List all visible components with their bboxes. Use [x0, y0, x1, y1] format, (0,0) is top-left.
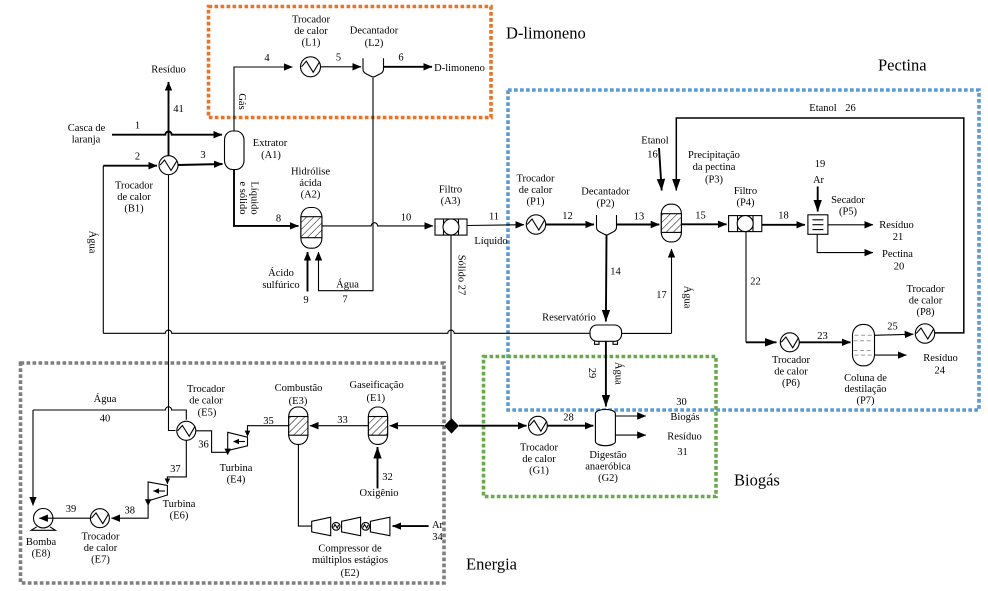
svg-text:25: 25 — [887, 322, 898, 333]
stream 16 Etanol — [641, 136, 668, 191]
dryer P5 — [808, 195, 866, 234]
svg-text:(P4): (P4) — [736, 198, 755, 209]
svg-text:(L2): (L2) — [365, 38, 384, 49]
stream 5 — [321, 53, 362, 67]
reactor A2 Hidrolise acida — [291, 167, 330, 249]
svg-text:Resíduo: Resíduo — [151, 65, 185, 76]
wire G1 to G2 — [547, 425, 593, 427]
svg-text:31: 31 — [677, 447, 688, 458]
svg-text:8: 8 — [276, 214, 281, 225]
svg-text:Ácido: Ácido — [268, 267, 294, 279]
svg-text:36: 36 — [198, 440, 209, 451]
svg-text:(P8): (P8) — [916, 307, 935, 318]
decanter P2 — [581, 187, 630, 235]
svg-text:Gaseificação: Gaseificação — [349, 380, 403, 391]
svg-text:5: 5 — [336, 53, 341, 64]
svg-text:Água: Água — [94, 393, 117, 405]
svg-text:4: 4 — [264, 53, 270, 64]
heat exchanger E5 — [177, 384, 226, 440]
stream 38 — [111, 499, 151, 518]
svg-text:Gás: Gás — [236, 93, 247, 109]
compressor E2 — [298, 444, 390, 579]
svg-text:Decantador: Decantador — [350, 26, 399, 37]
svg-text:D-limoneno: D-limoneno — [434, 63, 485, 74]
svg-text:(G1): (G1) — [529, 466, 549, 477]
svg-text:23: 23 — [817, 331, 828, 342]
svg-text:Casca de: Casca de — [68, 123, 106, 134]
heat exchanger P1 — [516, 174, 555, 235]
svg-text:Resíduo: Resíduo — [879, 220, 913, 231]
svg-text:múltiplos estágios: múltiplos estágios — [312, 555, 388, 566]
stream 28 — [459, 413, 574, 426]
svg-text:de calor: de calor — [84, 543, 118, 554]
svg-text:7: 7 — [342, 295, 347, 306]
svg-text:35: 35 — [263, 416, 274, 427]
svg-text:16: 16 — [647, 150, 658, 161]
svg-text:(P6): (P6) — [782, 378, 801, 389]
stream 37 — [167, 440, 186, 484]
stream 11 Liquido — [467, 212, 524, 248]
stream 15 — [681, 211, 726, 225]
svg-text:34: 34 — [432, 532, 443, 543]
stream 21 Residuo — [828, 220, 914, 243]
svg-text:de calor: de calor — [294, 26, 328, 37]
stream 34 Ar — [393, 520, 444, 543]
svg-text:26: 26 — [845, 103, 856, 114]
svg-text:Trocador: Trocador — [906, 284, 945, 295]
svg-text:Combustão: Combustão — [275, 383, 323, 394]
svg-text:Pectina: Pectina — [878, 56, 927, 75]
stream 8 Liquido e solido — [234, 170, 299, 226]
stream 6 D-limoneno — [384, 53, 485, 75]
Biogas section box — [484, 357, 717, 497]
svg-text:Trocador: Trocador — [115, 181, 154, 192]
anaerobic digester G2 — [585, 409, 631, 484]
svg-text:(E8): (E8) — [32, 549, 51, 560]
svg-text:24: 24 — [935, 366, 946, 377]
svg-text:Filtro: Filtro — [439, 185, 462, 196]
gasifier E1 — [349, 380, 403, 444]
svg-text:40: 40 — [100, 414, 111, 425]
svg-text:14: 14 — [610, 267, 621, 278]
svg-text:Trocador: Trocador — [81, 532, 120, 543]
wire E8 riser to Agua 40 — [32, 410, 34, 506]
wire diamond to E1 — [390, 425, 445, 427]
svg-text:38: 38 — [125, 506, 136, 517]
stream 17 Agua — [622, 249, 694, 333]
svg-text:Turbina: Turbina — [220, 463, 253, 474]
precipitation vessel P3 — [661, 150, 740, 242]
svg-text:Trocador: Trocador — [772, 355, 811, 366]
stream 19 Ar — [813, 159, 825, 212]
svg-text:2: 2 — [135, 152, 140, 163]
svg-text:Oxigênio: Oxigênio — [359, 488, 398, 499]
svg-text:Secador: Secador — [831, 195, 865, 206]
svg-text:Etanol: Etanol — [809, 103, 836, 114]
svg-text:1: 1 — [135, 121, 140, 132]
svg-text:Sólido 27: Sólido 27 — [455, 255, 466, 296]
svg-text:de calor: de calor — [189, 396, 223, 407]
stream 2 — [103, 152, 157, 166]
wire B1 down to E5 — [169, 175, 176, 431]
stream 1 Casca de laranja — [68, 121, 222, 146]
pump E8 — [26, 509, 57, 560]
svg-text:ácida: ácida — [299, 178, 321, 189]
stream 20 Pectina — [817, 234, 913, 272]
svg-text:21: 21 — [893, 232, 904, 243]
svg-text:Resíduo: Resíduo — [667, 432, 701, 443]
stream 26 Etanol recycle — [676, 103, 964, 333]
svg-text:Bomba: Bomba — [26, 537, 57, 548]
svg-text:destilação: destilação — [845, 384, 887, 395]
svg-text:de calor: de calor — [774, 367, 808, 378]
svg-text:Extrator: Extrator — [253, 138, 288, 149]
stream 36 — [196, 431, 231, 456]
stream 30 Biogas — [615, 397, 699, 423]
stream 10 — [322, 213, 433, 226]
wire Solido 27 down to diamond — [451, 235, 466, 419]
svg-text:Biogás: Biogás — [734, 471, 780, 490]
svg-text:Digestão: Digestão — [589, 450, 626, 461]
svg-text:Hidrólise: Hidrólise — [291, 167, 330, 178]
svg-text:17: 17 — [656, 290, 667, 301]
D-limoneno section box — [209, 7, 492, 118]
svg-text:Pectina: Pectina — [882, 249, 913, 260]
svg-text:Trocador: Trocador — [516, 174, 555, 185]
stream 24 Residuo — [875, 353, 958, 377]
svg-text:32: 32 — [382, 472, 393, 483]
svg-text:6: 6 — [398, 53, 403, 64]
svg-text:Água: Água — [336, 279, 359, 291]
svg-text:de calor: de calor — [909, 296, 943, 307]
stream 41 Residuo — [151, 65, 185, 156]
stream 33 — [310, 415, 369, 426]
svg-text:41: 41 — [173, 104, 184, 115]
stream 39 — [39, 504, 90, 518]
svg-text:Energia: Energia — [466, 555, 518, 574]
turbine E6 — [148, 482, 196, 522]
svg-text:anaeróbica: anaeróbica — [585, 462, 631, 473]
svg-text:(G2): (G2) — [598, 473, 618, 484]
heat exchanger E7 — [81, 509, 120, 566]
stream 4 Gas — [234, 53, 293, 131]
heat exchanger L1 — [292, 15, 331, 77]
svg-text:9: 9 — [303, 295, 308, 306]
svg-text:(A1): (A1) — [261, 150, 281, 161]
svg-text:Água: Água — [682, 286, 694, 309]
svg-text:Filtro: Filtro — [734, 186, 757, 197]
stream 9 Acido sulfurico — [262, 252, 308, 306]
svg-text:de calor: de calor — [522, 454, 556, 465]
svg-text:(E5): (E5) — [198, 408, 217, 419]
svg-text:D-limoneno: D-limoneno — [506, 24, 586, 43]
stream 23 — [799, 331, 850, 342]
svg-text:Ar: Ar — [813, 175, 825, 186]
svg-text:(E4): (E4) — [227, 475, 246, 486]
svg-text:Etanol: Etanol — [641, 136, 668, 147]
filter P4 — [729, 186, 762, 232]
stream 32 Oxigenio — [359, 447, 398, 499]
svg-text:(P5): (P5) — [839, 207, 858, 218]
svg-text:de calor: de calor — [117, 192, 151, 203]
stream 31 Residuo — [615, 432, 701, 459]
svg-text:39: 39 — [66, 504, 77, 515]
svg-text:(P2): (P2) — [596, 199, 615, 210]
svg-text:(A2): (A2) — [301, 190, 321, 201]
svg-text:(P3): (P3) — [705, 175, 724, 186]
stream 29 Agua — [586, 341, 625, 406]
svg-text:13: 13 — [634, 212, 645, 223]
svg-text:(E3): (E3) — [289, 396, 308, 407]
svg-text:20: 20 — [894, 262, 905, 273]
Energia section box — [21, 363, 445, 583]
svg-text:33: 33 — [337, 415, 348, 426]
stream 18 — [762, 211, 805, 225]
stream 14 — [606, 236, 622, 322]
heat exchanger P8 — [906, 284, 945, 343]
svg-text:Trocador: Trocador — [520, 443, 559, 454]
svg-text:Biogás: Biogás — [670, 412, 699, 423]
stream 22 — [746, 232, 777, 343]
svg-text:Líquidoe sólido: Líquidoe sólido — [237, 181, 260, 214]
heat exchanger B1 — [115, 156, 178, 215]
combustor E3 — [275, 383, 323, 444]
svg-text:(E6): (E6) — [170, 511, 189, 522]
svg-text:(A3): (A3) — [441, 196, 461, 207]
stream 25 — [875, 322, 914, 336]
svg-text:30: 30 — [676, 397, 687, 408]
extractor A1 — [225, 131, 288, 170]
svg-text:Trocador: Trocador — [187, 384, 226, 395]
wire Agua recycle riser — [87, 166, 104, 334]
distillation column P7 — [844, 324, 887, 406]
svg-text:de calor: de calor — [519, 185, 553, 196]
reservoir — [542, 313, 621, 345]
filter A3 — [435, 185, 467, 236]
heat exchanger P6 — [772, 333, 811, 389]
svg-text:sulfúrico: sulfúrico — [262, 280, 299, 291]
svg-text:da pectina: da pectina — [693, 162, 736, 173]
wire Agua 40 to E5 top — [33, 393, 186, 425]
wire reservatorio to left — [103, 330, 590, 333]
stream 35 — [248, 416, 289, 436]
svg-text:22: 22 — [750, 277, 761, 288]
turbine E4 — [220, 432, 253, 485]
svg-text:11: 11 — [489, 212, 499, 223]
svg-text:(P7): (P7) — [856, 396, 875, 407]
svg-text:Coluna de: Coluna de — [844, 373, 887, 384]
svg-text:(E1): (E1) — [366, 393, 385, 404]
svg-text:(E7): (E7) — [91, 555, 110, 566]
svg-text:29: 29 — [586, 368, 597, 379]
svg-text:15: 15 — [695, 211, 706, 222]
svg-text:Água: Água — [613, 362, 625, 385]
svg-text:19: 19 — [815, 159, 826, 170]
wire L2 bottom to stream 7 Agua — [319, 78, 374, 306]
svg-text:Precipitação: Precipitação — [688, 150, 740, 161]
svg-text:3: 3 — [200, 150, 205, 161]
junction diamond — [444, 418, 459, 433]
heat exchanger G1 — [520, 416, 559, 476]
svg-text:18: 18 — [778, 211, 789, 222]
svg-text:Líquido: Líquido — [474, 236, 507, 247]
svg-text:Turbina: Turbina — [163, 499, 196, 510]
svg-text:10: 10 — [401, 213, 412, 224]
svg-text:28: 28 — [563, 413, 574, 424]
stream 3 — [178, 150, 223, 165]
svg-text:Água: Água — [87, 231, 99, 254]
svg-text:Reservatório: Reservatório — [542, 313, 596, 324]
stream 12 — [546, 211, 594, 225]
svg-text:Ar: Ar — [432, 520, 444, 531]
svg-text:12: 12 — [562, 211, 573, 222]
svg-text:Decantador: Decantador — [581, 187, 630, 198]
Pectina section box — [508, 90, 979, 410]
svg-text:37: 37 — [170, 464, 181, 475]
svg-text:Trocador: Trocador — [292, 15, 331, 26]
svg-text:Resíduo: Resíduo — [923, 353, 957, 364]
svg-text:(L1): (L1) — [302, 38, 321, 49]
svg-text:Compressor de: Compressor de — [318, 544, 382, 555]
svg-text:(B1): (B1) — [124, 204, 144, 215]
stream 13 — [617, 212, 660, 225]
svg-text:laranja: laranja — [72, 135, 101, 146]
svg-text:(P1): (P1) — [526, 197, 545, 208]
decanter L2 — [350, 26, 399, 77]
svg-text:(E2): (E2) — [341, 568, 360, 579]
